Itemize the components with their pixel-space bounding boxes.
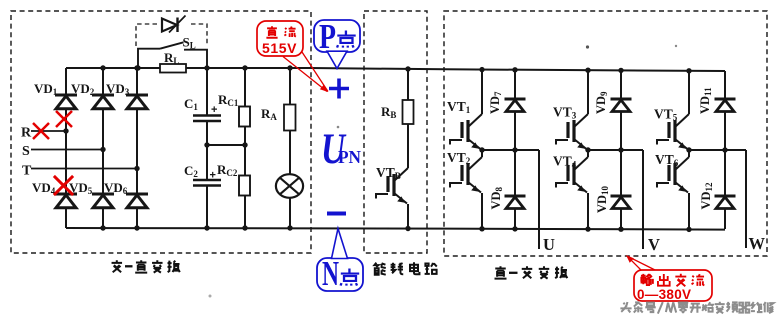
- svg-text:U: U: [543, 235, 555, 254]
- svg-text:T: T: [22, 164, 32, 179]
- svg-text:V: V: [648, 235, 660, 254]
- transistor VT6: [655, 150, 689, 229]
- node: leg2 mid: [585, 147, 590, 152]
- resistor RL: [160, 64, 186, 73]
- capacitor C2: [184, 145, 221, 228]
- wire: W output: [745, 150, 747, 248]
- node: VTB bottom: [405, 226, 410, 231]
- node: VD9 top: [618, 68, 623, 73]
- wire: leg1 midline: [482, 149, 539, 151]
- node: VD mid leg2: [618, 147, 623, 152]
- wire: P bus: [66, 68, 725, 71]
- callout: output AC 0-380V (red bubble): [626, 255, 712, 302]
- node: VD8 bottom: [512, 226, 517, 231]
- node: VT1 top: [479, 67, 484, 72]
- svg-text:P: P: [319, 17, 336, 56]
- node: VD10 bottom: [618, 227, 623, 232]
- node: VT3 top: [585, 68, 590, 73]
- diode VD5: [92, 194, 114, 208]
- node: VT2 bottom: [479, 226, 484, 231]
- node: RC2 bottom: [242, 225, 247, 230]
- callout: N point (blue bubble): [317, 229, 363, 294]
- diode VD11: [698, 71, 736, 196]
- node: C midpoint: [204, 142, 209, 147]
- wire: phase S: [31, 149, 103, 151]
- indicator lamp: [276, 131, 303, 229]
- wire: V output: [642, 150, 644, 249]
- wire: rectifier leg 3: [136, 68, 138, 228]
- wire: phase R: [31, 130, 66, 132]
- switch SL: [138, 35, 207, 69]
- node: RA top: [287, 65, 292, 70]
- fault X on R line: [33, 123, 49, 139]
- diode VD9: [594, 70, 632, 196]
- node: VT4 bottom: [585, 226, 590, 231]
- wire: leg2 midline: [588, 149, 643, 151]
- svg-text:N: N: [322, 254, 339, 293]
- node: leg3 bottom: [134, 225, 139, 230]
- svg-text:+: +: [211, 104, 217, 116]
- node: VD7 top: [512, 67, 517, 72]
- wire: N bus: [66, 228, 725, 230]
- node: VD mid leg1: [512, 147, 517, 152]
- diode VD1: [55, 95, 77, 109]
- dashed box: braking section: [364, 11, 427, 253]
- callout: P point (blue bubble): [314, 17, 360, 69]
- label: section AC-DC (交-直变换): [112, 260, 180, 272]
- diode on bypass box (with slash): [158, 14, 189, 35]
- diode VD4: [55, 194, 77, 208]
- capacitor C1: [184, 68, 221, 145]
- node: VD mid leg3: [722, 147, 727, 152]
- wire: rectifier leg 1: [65, 68, 67, 228]
- label UPN: [321, 126, 361, 173]
- node: RC1 top: [242, 65, 247, 70]
- svg-text:S: S: [22, 144, 30, 159]
- resistor RC2: [217, 145, 250, 228]
- node: leg1 mid: [479, 147, 484, 152]
- watermark: [620, 302, 773, 314]
- resistor RC1: [218, 68, 250, 145]
- fault X on VD4: [54, 176, 73, 195]
- svg-text:R: R: [21, 126, 32, 141]
- label: section DC-AC (直-交变换): [495, 266, 568, 278]
- diode VD12: [699, 182, 736, 229]
- svg-text:+: +: [210, 170, 216, 182]
- node: S-leg2 junction: [100, 147, 105, 152]
- transistor VT5: [654, 71, 689, 150]
- node: VT6 bottom: [686, 227, 691, 232]
- wire: phase T: [31, 168, 137, 170]
- wire: rectifier leg 2: [102, 68, 104, 228]
- wire: U output: [538, 150, 540, 249]
- node: RL right / C branch top: [204, 65, 209, 70]
- node: lamp bottom: [287, 225, 292, 230]
- scan speckle: [586, 45, 589, 48]
- fault X on leg1 above R: [56, 111, 72, 127]
- transistor VT4: [553, 150, 588, 229]
- node: RC midpoint: [242, 142, 247, 147]
- node: T-leg3 junction: [134, 166, 139, 171]
- node P (+): [329, 79, 349, 99]
- diode VD10: [595, 185, 632, 228]
- wire: leg3 midline: [689, 149, 746, 151]
- resistor RB: [381, 69, 414, 124]
- svg-text:0—380V: 0—380V: [637, 287, 691, 302]
- resistor RA: [261, 68, 296, 131]
- callout: DC 515V (red bubble): [257, 21, 328, 92]
- node: leg2 bottom: [100, 225, 105, 230]
- wire: C/RC midpoint link: [207, 144, 245, 146]
- diode VD7: [488, 70, 526, 196]
- node: C bottom: [204, 225, 209, 230]
- transistor VT3: [553, 70, 588, 149]
- svg-text:W: W: [749, 234, 766, 253]
- transistor VTB (brake IGBT): [376, 124, 408, 229]
- node: leg3 mid: [686, 147, 691, 152]
- dashed box: AC-DC section (left): [11, 11, 311, 253]
- diode VD3: [126, 95, 148, 109]
- diode VD6: [126, 194, 148, 208]
- relay bypass block: small dashed box: [136, 24, 207, 46]
- node: VT5 top: [686, 68, 691, 73]
- node N (-): [327, 212, 346, 216]
- svg-text:PN: PN: [338, 147, 361, 167]
- dashed box: DC-AC section (right): [444, 11, 767, 256]
- label: braking section (能耗电路): [374, 262, 436, 274]
- node: leg2 top: [100, 65, 105, 70]
- diode VD2: [92, 95, 114, 109]
- transistor VT1: [447, 70, 482, 150]
- node: leg3 top: [134, 65, 139, 70]
- transistor VT2: [447, 150, 482, 229]
- diode VD8: [489, 186, 526, 228]
- node: RB top: [405, 66, 410, 71]
- node: R-leg1 junction: [63, 128, 68, 133]
- node: RL left: [135, 65, 140, 70]
- svg-text:515V: 515V: [262, 40, 297, 56]
